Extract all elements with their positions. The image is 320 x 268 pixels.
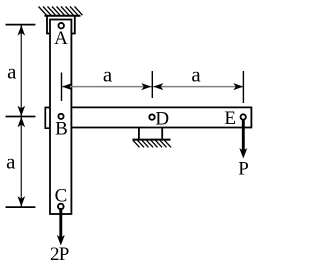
- clevis bracket at A (right side): [71, 16, 75, 34]
- force 2P arrow at C: [59, 208, 62, 238]
- ceiling line: [45, 15, 81, 17]
- arrowhead right at D extension (left side): [141, 83, 151, 90]
- extension line above D: [151, 71, 153, 98]
- ceiling hatching above support A: [39, 7, 83, 16]
- horizontal bar BDE: [72, 107, 252, 127]
- arrowhead down at C tick: [18, 196, 26, 207]
- svg-text:a: a: [103, 63, 113, 87]
- tick at B level: [6, 116, 36, 118]
- arrowhead left at D extension (right side): [153, 83, 163, 90]
- svg-text:D: D: [155, 108, 169, 129]
- bracket at B (left side of vertical bar): [45, 108, 50, 129]
- arrowhead up at A tick: [18, 25, 26, 35]
- svg-text:B: B: [55, 119, 68, 140]
- arrowhead down to B tick: [18, 106, 26, 117]
- arrowhead right at E extension: [233, 83, 243, 90]
- tick at C level: [6, 206, 36, 208]
- force P arrow at E: [242, 119, 245, 151]
- svg-text:A: A: [54, 28, 68, 49]
- tick at A level: [6, 24, 36, 26]
- pin circle C: [58, 204, 64, 210]
- pin circle A: [58, 23, 64, 29]
- arrowhead up to B tick: [18, 117, 26, 128]
- pin circle B: [58, 114, 63, 119]
- svg-text:a: a: [7, 60, 17, 84]
- left dimension line vertical: [20, 25, 22, 208]
- svg-text:a: a: [6, 149, 16, 173]
- ground line under D: [133, 139, 171, 141]
- support legs under D: [138, 128, 140, 140]
- svg-text:P: P: [238, 159, 249, 180]
- clevis bracket at A (left side): [47, 16, 51, 34]
- pin circle E: [241, 114, 246, 119]
- arrowhead left at B extension: [62, 83, 72, 90]
- extension line above E: [242, 71, 244, 103]
- svg-text:P: P: [59, 244, 70, 265]
- extension line above B: [61, 73, 63, 102]
- top dimension line horizontal: [62, 86, 243, 88]
- svg-text:C: C: [55, 186, 68, 207]
- svg-text:E: E: [224, 108, 236, 129]
- svg-text:a: a: [191, 63, 201, 87]
- pin circle D: [149, 114, 154, 119]
- vertical bar ABC: [50, 20, 71, 215]
- ground hatching under D: [133, 140, 171, 147]
